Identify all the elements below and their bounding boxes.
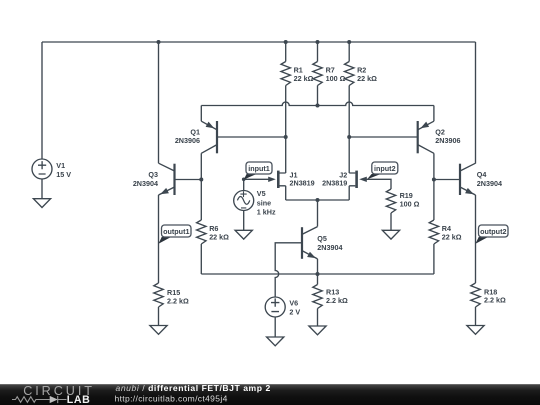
wire R18 to ground xyxy=(475,307,477,326)
svg-text:output2: output2 xyxy=(480,227,506,236)
node junction V5 J1 gate xyxy=(242,178,246,182)
svg-text:http://circuitlab.com/ct495j4: http://circuitlab.com/ct495j4 xyxy=(115,393,228,403)
wire Q4 base to node xyxy=(434,179,460,181)
node junction top rail at R1 xyxy=(284,40,288,44)
wire Q5 emitter to bias rail xyxy=(317,259,319,274)
svg-text:sine: sine xyxy=(257,198,271,207)
resistor R19 100 xyxy=(386,189,395,213)
svg-text:22 kΩ: 22 kΩ xyxy=(294,74,314,83)
svg-text:input1: input1 xyxy=(248,164,270,173)
svg-text:V1: V1 xyxy=(56,161,65,170)
svg-text:1 kHz: 1 kHz xyxy=(257,207,276,216)
wire J2 source down to rail xyxy=(348,186,350,200)
jfet J2 2N3819 xyxy=(349,171,367,188)
voltage source V6 2 V xyxy=(265,297,285,317)
wire Q3 emitter down to R15 xyxy=(158,195,160,283)
svg-text:LAB: LAB xyxy=(67,394,91,405)
wire V1 to ground xyxy=(41,179,43,199)
node junction R7 on emitter rail xyxy=(316,104,320,108)
svg-text:2N3904: 2N3904 xyxy=(317,243,342,252)
flag input1 xyxy=(244,162,272,180)
svg-text:Q2: Q2 xyxy=(435,127,445,136)
transistor Q3 2N3904 NPN xyxy=(159,163,175,195)
wire Q5 collector up to source rail xyxy=(317,200,319,227)
transistor Q4 2N3904 NPN xyxy=(460,163,476,195)
ground V6 xyxy=(267,337,284,346)
node junction top rail at R2 xyxy=(347,40,351,44)
wire Q1 base to R1/J1 node xyxy=(217,136,286,138)
svg-text:15 V: 15 V xyxy=(56,170,71,179)
resistor R1 22k xyxy=(281,62,290,86)
svg-text:output1: output1 xyxy=(163,227,189,236)
svg-text:2N3906: 2N3906 xyxy=(175,136,200,145)
transistor Q2 2N3906 PNP xyxy=(418,121,434,153)
wire J source rail xyxy=(286,199,350,201)
svg-text:anubi / differential FET/BJT a: anubi / differential FET/BJT amp 2 xyxy=(116,383,271,393)
wire J1 source down to rail xyxy=(285,186,287,200)
footer bar xyxy=(0,384,540,405)
wire top supply rail xyxy=(42,41,476,43)
flag output1 xyxy=(159,225,192,244)
node junction top rail at Q3 branch xyxy=(157,40,161,44)
transistor Q5 2N3904 NPN xyxy=(302,227,318,259)
svg-text:100 Ω: 100 Ω xyxy=(326,74,346,83)
resistor R18 2.2k xyxy=(471,283,480,307)
wire R19 to ground xyxy=(390,213,392,230)
node junction J source rail Q5 collector xyxy=(316,198,320,202)
svg-text:100 Ω: 100 Ω xyxy=(400,199,420,208)
resistor R2 22k xyxy=(345,62,354,86)
wire Q3 collector drop from top rail xyxy=(158,42,160,163)
logo resistor+diode symbol xyxy=(12,396,67,403)
svg-text:2.2 kΩ: 2.2 kΩ xyxy=(484,296,506,305)
svg-text:input2: input2 xyxy=(374,164,396,173)
svg-text:22 kΩ: 22 kΩ xyxy=(357,74,377,83)
svg-text:V6: V6 xyxy=(289,299,298,308)
wire Q3 base to node xyxy=(175,179,202,181)
node junction top rail at R7 xyxy=(316,40,320,44)
jfet J1 2N3819 xyxy=(268,171,286,188)
svg-text:V5: V5 xyxy=(257,189,266,198)
wire R7 bottom lead xyxy=(317,86,319,106)
resistor R4 22k xyxy=(429,220,438,244)
wire R13 top lead xyxy=(317,274,319,285)
svg-text:2.2 kΩ: 2.2 kΩ xyxy=(326,296,348,305)
resistor R15 2.2k xyxy=(154,283,163,307)
ground R19 xyxy=(382,230,399,239)
voltage source V1 15 V xyxy=(32,159,52,179)
wire Q2 collector down to Q4 base node xyxy=(433,153,435,179)
wire R2 top lead xyxy=(348,42,350,62)
ground R13 xyxy=(309,326,326,335)
wire Q1 emitter up to rail xyxy=(200,106,202,122)
wire R13 to ground xyxy=(317,309,319,327)
resistor R6 22k xyxy=(197,220,206,244)
wire R4 top lead xyxy=(433,180,435,221)
wire Q5 base to V6 with hop over bias rail xyxy=(275,243,302,298)
wire R2 bottom lead down to Q2 base node and J2 drain xyxy=(348,86,350,174)
svg-text:2N3906: 2N3906 xyxy=(435,136,460,145)
wire R1 top lead xyxy=(285,42,287,62)
wire V1 positive lead up left side xyxy=(41,42,43,160)
svg-text:Q1: Q1 xyxy=(190,127,200,136)
wire bottom bias rail R6 to R4 xyxy=(201,273,434,275)
wire J2 gate to R19 corner xyxy=(366,179,391,189)
wire emitter rail Q1-Q2 with hops over R1 and R2 wires xyxy=(201,102,434,105)
svg-text:22 kΩ: 22 kΩ xyxy=(442,233,462,242)
wire R15 to ground xyxy=(158,307,160,326)
svg-text:2N3904: 2N3904 xyxy=(133,179,158,188)
node junction Q1 base R1 J1 xyxy=(284,135,288,139)
resistor R13 2.2k xyxy=(313,285,322,309)
wire Q1 collector down to Q3 base node xyxy=(200,153,202,179)
svg-text:2N3904: 2N3904 xyxy=(477,179,502,188)
node junction Q4 base Q2 collector R4 xyxy=(432,178,436,182)
wire R6 bottom lead xyxy=(200,244,202,274)
svg-text:22 kΩ: 22 kΩ xyxy=(209,233,229,242)
wire V5 to gate node xyxy=(243,179,245,191)
ground R18 xyxy=(467,326,484,335)
ground R15 xyxy=(150,326,167,335)
svg-text:2.2 kΩ: 2.2 kΩ xyxy=(167,296,189,305)
wire J1 gate from input node xyxy=(244,178,269,180)
node junction Q3 base Q1 collector R6 xyxy=(199,178,203,182)
wire V5 to ground xyxy=(243,211,245,231)
svg-text:2N3819: 2N3819 xyxy=(290,179,315,188)
ground V5 xyxy=(235,230,252,239)
wire Q4 emitter down to R18 xyxy=(475,195,477,283)
voltage source V5 sine xyxy=(234,191,254,211)
ground V1 xyxy=(33,199,50,208)
wire R4 bottom lead xyxy=(433,244,435,274)
transistor Q1 2N3906 PNP xyxy=(201,121,217,153)
wire R7 top lead xyxy=(317,42,319,62)
wire R6 top lead xyxy=(200,180,202,221)
wire Q2 base to R2/J2 node xyxy=(349,136,418,138)
flag input2 xyxy=(367,162,398,179)
wire R1 bottom lead down to Q1 base node and J1 drain xyxy=(285,86,287,174)
node junction Q5 emitter R13 bias rail xyxy=(316,272,320,276)
resistor R7 100 xyxy=(313,62,322,86)
flag output2 xyxy=(476,225,509,244)
node junction Q2 base R2 J2 xyxy=(347,135,351,139)
wire Q2 emitter up to rail xyxy=(433,106,435,122)
wire V6 to ground xyxy=(274,317,276,337)
svg-text:2N3819: 2N3819 xyxy=(322,179,347,188)
wire right side down to Q4 collector xyxy=(475,42,477,164)
svg-text:2 V: 2 V xyxy=(289,308,300,317)
